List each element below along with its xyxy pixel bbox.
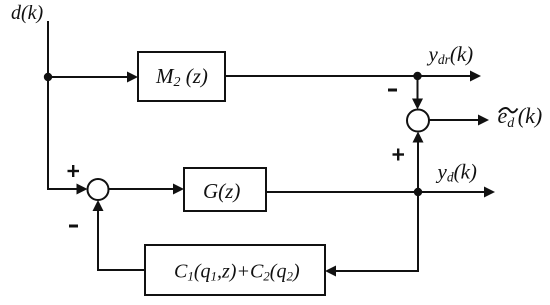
node ed~(k) output label [498,103,543,131]
svg-text:yd(k): yd(k) [436,160,477,185]
svg-text:ed(k): ed(k) [498,103,543,131]
wire arrowhead into left summer [77,184,88,195]
svg-text:M2 (z): M2 (z) [155,64,208,90]
svg-text:ydr(k): ydr(k) [427,42,474,67]
svg-text:C1(q1,z)+C2(q2): C1(q1,z)+C2(q2) [174,261,300,284]
block C1(q1,z)+C2(q2) [145,245,325,295]
node junction dot on yd wire [414,188,422,196]
wire down from ydr junction into right summer [417,76,419,100]
op summer right (circle) [407,110,429,132]
wire G output to yd arrow [266,191,485,193]
wire d(k) vertical trunk down to left summer corner [48,21,82,189]
wire M2 output to ydr arrow [225,75,471,77]
wire right summer output to ed arrow [429,119,478,121]
wire left summer output to G block [109,188,175,190]
block G(z) [184,168,266,211]
svg-text:d(k): d(k) [11,2,44,24]
wire from junction dot to M2 block [48,76,128,78]
wire C block output back up into left summer [98,206,145,270]
minus sign at left summer bottom input [69,225,78,228]
plus sign at right summer bottom input [393,149,405,161]
minus sign at right summer top input [388,89,397,92]
wire down from yd junction to feedback row [331,192,418,271]
node junction dot on ydr wire [413,72,421,80]
op summer left (circle) [88,179,109,200]
wire up from yd junction into right summer [417,138,419,192]
block M2(z) [138,52,225,101]
svg-text:G(z): G(z) [203,179,240,203]
plus sign at left summer top input [68,165,80,177]
node junction dot on d(k) trunk [44,73,52,81]
